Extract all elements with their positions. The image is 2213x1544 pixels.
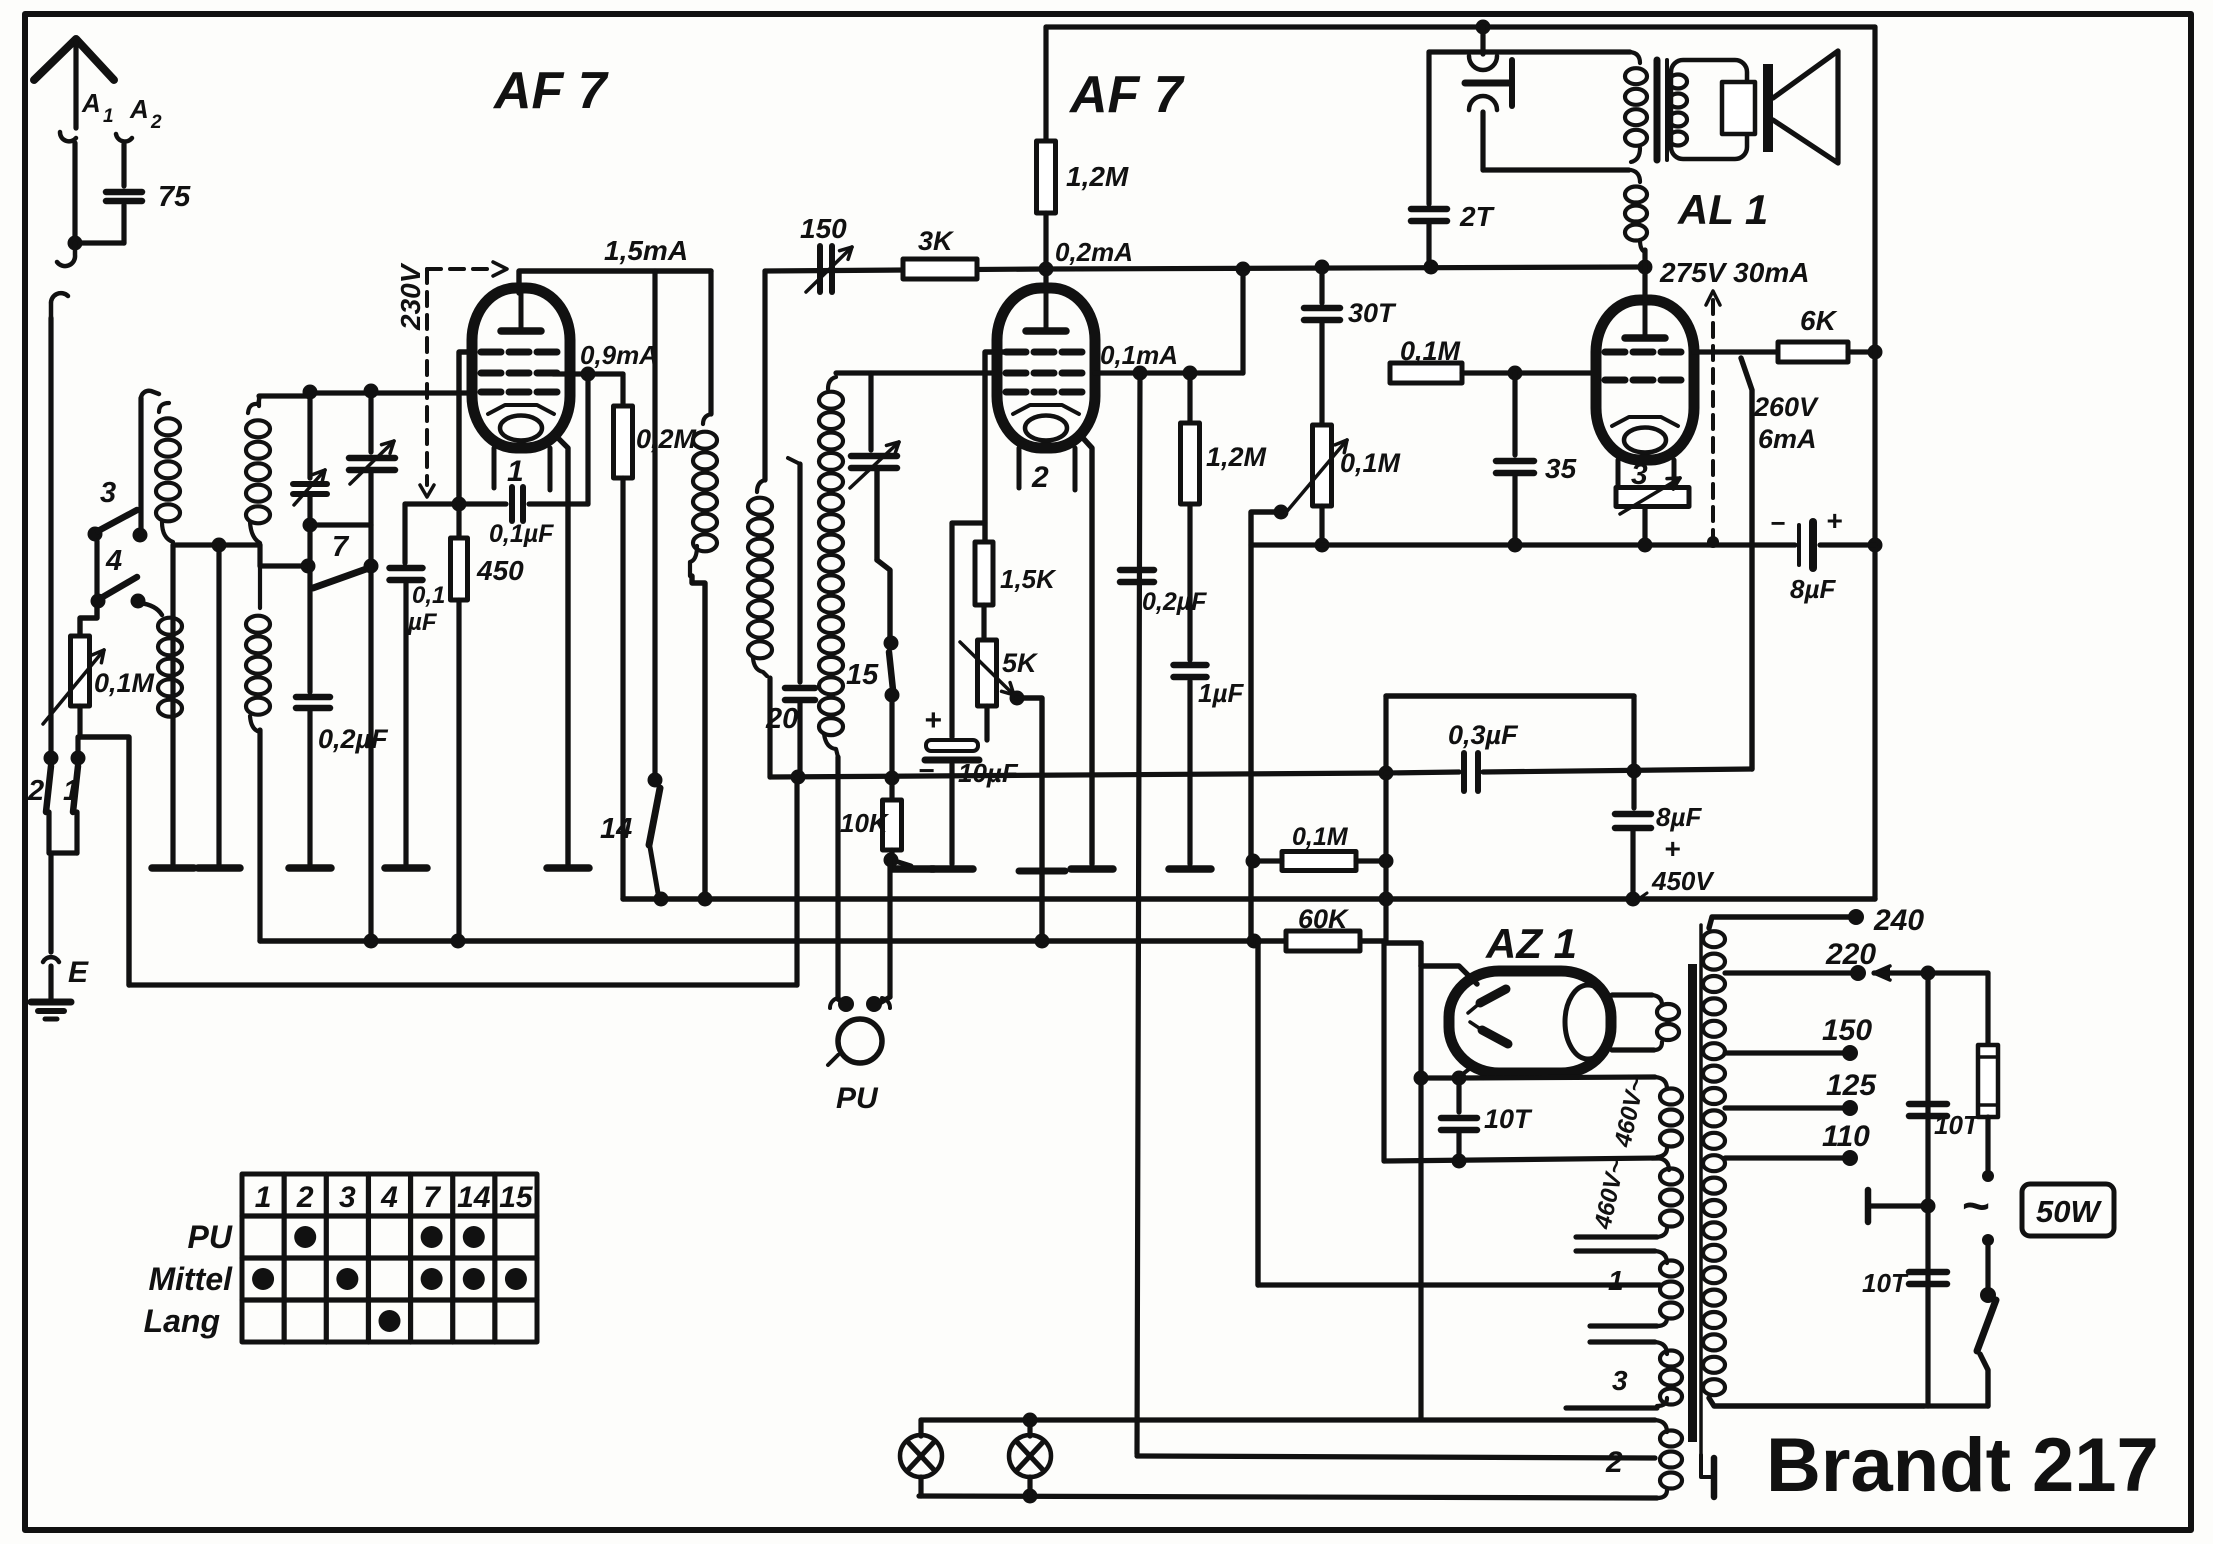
svg-text:1,5mA: 1,5mA — [604, 235, 688, 266]
wire bus2 corner down — [1381, 941, 1386, 1161]
wire plate bus y269 — [765, 269, 1046, 271]
antenna symbol — [34, 39, 114, 80]
wire ground bus1 y899 — [623, 896, 1875, 901]
wire tube2 grid1 stub — [985, 352, 1008, 542]
wire pot to switch1 — [75, 737, 80, 758]
trimmer cap C2 wire — [368, 390, 373, 452]
svg-text:5K: 5K — [1002, 648, 1039, 678]
pilot lamp 1 — [918, 1420, 923, 1436]
capacitor 10T lower — [1909, 1269, 1947, 1276]
wire primary bottom — [1709, 1398, 1924, 1406]
svg-text:+: + — [1664, 833, 1680, 864]
svg-text:125: 125 — [1826, 1069, 1877, 1102]
svg-text:2: 2 — [27, 775, 44, 807]
wire grid line y373 right — [1095, 370, 1243, 375]
svg-text:0,2M: 0,2M — [636, 424, 697, 454]
mains switch — [1982, 1234, 1994, 1246]
svg-text:75: 75 — [158, 181, 191, 213]
switch 15 bottom contact — [885, 688, 900, 703]
terminal A2 hook — [116, 134, 132, 142]
wire 1,2M to 1uF — [1187, 504, 1192, 660]
switch 4 blade — [101, 577, 137, 598]
svg-text:+: + — [924, 704, 942, 737]
svg-text:30T: 30T — [1348, 298, 1397, 328]
capacitor 30T — [1319, 267, 1324, 303]
wire frame right — [1872, 27, 1877, 899]
svg-text:450V: 450V — [1651, 866, 1715, 896]
wire coil R to PU — [835, 757, 840, 999]
tube V2 cathode — [1013, 405, 1079, 414]
ground bar x219 — [198, 864, 240, 872]
coil P IF primary — [693, 432, 717, 449]
svg-text:0,1µF: 0,1µF — [489, 520, 554, 548]
wire winding2 bottom — [919, 1496, 1657, 1498]
resistor 0,1M coupling — [1390, 363, 1462, 383]
svg-text:~: ~ — [1962, 1180, 1990, 1233]
wire L2 top to trimmers — [259, 393, 308, 398]
wire heater drop x1421 — [1418, 966, 1423, 1418]
svg-text:3: 3 — [1612, 1365, 1628, 1396]
PU jack circle — [838, 1019, 882, 1063]
tube V3 envelope — [1596, 300, 1694, 460]
wire switch3 to switch4 — [94, 541, 99, 601]
capacitor 0,1uF coupling — [509, 487, 515, 521]
wire AZ1 anode lead — [1418, 943, 1423, 966]
wire tap 150 — [1725, 1050, 1845, 1055]
tube V2 envelope — [997, 288, 1095, 448]
svg-text:PU: PU — [188, 1219, 233, 1255]
power transformer primary winding — [1703, 931, 1725, 947]
winding 2 pilot — [921, 1417, 1655, 1422]
svg-text:1,5K: 1,5K — [1000, 564, 1057, 594]
svg-text:240: 240 — [1873, 904, 1924, 937]
wire 220 branch down x1928 — [1925, 973, 1930, 1406]
svg-text:3K: 3K — [918, 226, 955, 256]
tube V2 pins — [1017, 448, 1022, 488]
wire 1,5K to 5K — [981, 605, 986, 640]
wire fuse branch — [1985, 973, 1990, 1045]
wire tap 2 — [1137, 1456, 1655, 1458]
wire pot wiper tap — [1274, 505, 1289, 520]
svg-text:3: 3 — [100, 477, 116, 509]
wire capacitor to junction — [121, 205, 126, 243]
output transformer primary coil — [1630, 52, 1640, 63]
svg-text:450: 450 — [476, 555, 524, 586]
wire plate to IF primary — [708, 271, 713, 414]
capacitor 8uF 450V — [1615, 811, 1651, 818]
switch 14 blade — [649, 788, 660, 845]
wire to ground x219 — [216, 545, 221, 864]
svg-text:0,2µF: 0,2µF — [318, 724, 389, 754]
svg-text:10T: 10T — [1934, 1110, 1981, 1140]
tube V1 top-cap anode bar — [519, 288, 524, 331]
svg-text:2: 2 — [296, 1181, 314, 1214]
svg-text:1: 1 — [507, 455, 524, 488]
svg-text:0,9mA: 0,9mA — [580, 340, 658, 370]
svg-text:1: 1 — [1608, 1265, 1624, 1296]
wire 0,2M to bus1 — [620, 478, 625, 899]
capacitor 10T AZ1 — [1456, 1078, 1461, 1112]
potentiometer 0,1M arrow — [43, 650, 104, 724]
resistor 6K — [1778, 342, 1848, 362]
potentiometer 0,1M volume — [1313, 425, 1332, 506]
switch 3 contacts — [88, 527, 103, 542]
capacitor 0,2uF — [307, 566, 312, 692]
wire grid line y373 left — [836, 370, 998, 375]
svg-text:0,1M: 0,1M — [94, 668, 155, 698]
svg-text:1µF: 1µF — [1198, 678, 1244, 708]
speaker bar — [1763, 64, 1773, 152]
svg-text:3: 3 — [339, 1181, 356, 1214]
wire 35 to bus — [1512, 475, 1517, 545]
svg-text:2: 2 — [150, 112, 162, 133]
wire pot bottom to bus — [1319, 506, 1324, 545]
svg-text:PU: PU — [836, 1082, 879, 1115]
svg-text:A: A — [81, 88, 101, 118]
svg-text:10T: 10T — [1862, 1268, 1909, 1298]
speaker driver — [1722, 82, 1755, 134]
svg-text:−: − — [1770, 508, 1785, 538]
svg-text:1: 1 — [255, 1181, 272, 1214]
antenna plug connector hooks — [57, 243, 75, 266]
svg-text:15: 15 — [499, 1181, 534, 1214]
wire 10uF branch — [952, 520, 985, 525]
svg-text:0,1mA: 0,1mA — [1100, 340, 1178, 370]
svg-text:Mittel: Mittel — [148, 1261, 233, 1297]
wire x1634 down to 8uF — [1631, 696, 1636, 808]
wire 0,1M AVC left — [1251, 858, 1282, 863]
wire L2 bottom down — [257, 545, 262, 566]
capacitor 8uF top — [1797, 525, 1801, 565]
wire 5K wiper — [1017, 698, 1042, 941]
arrow 220 — [1874, 966, 1890, 980]
switch 1 contact — [71, 751, 86, 766]
switch 14 wire — [652, 271, 657, 778]
svg-text:8µF: 8µF — [1790, 574, 1836, 604]
resistor 0,2M — [620, 374, 625, 406]
core ground hook — [1701, 1455, 1712, 1477]
capacitor 10uF electrolytic — [949, 523, 954, 737]
wire 0,3uF line — [1386, 772, 1459, 773]
wire 1,2M to tube2 top — [1043, 213, 1048, 288]
svg-text:2T: 2T — [1459, 201, 1496, 232]
svg-text:0,1: 0,1 — [412, 582, 445, 609]
wire 30T to pot — [1319, 323, 1324, 425]
table dots Mittel row — [252, 1268, 274, 1290]
capacitor 75 — [106, 189, 142, 196]
wire to earth terminal — [48, 853, 53, 952]
svg-text:0,3µF: 0,3µF — [1448, 720, 1519, 750]
svg-text:220: 220 — [1825, 938, 1876, 971]
resistor 0,1M AVC — [1282, 852, 1356, 871]
svg-text:E: E — [68, 956, 89, 989]
winding 3 heater — [1590, 1339, 1655, 1344]
table dots PU row — [294, 1226, 316, 1248]
wire inner top line — [1046, 24, 1875, 29]
switch 15 blade — [889, 652, 893, 690]
wire 60K feed down — [1384, 940, 1421, 945]
wire heater tap 1 riser — [1255, 941, 1260, 1285]
wire pot bottom — [77, 706, 82, 737]
svg-text:2: 2 — [1605, 1446, 1623, 1479]
switch 14 contact — [648, 773, 663, 788]
svg-text:1,2M: 1,2M — [1066, 161, 1129, 192]
tube V3 top-cap anode bar — [1643, 300, 1648, 338]
ground bar x1092 — [1071, 865, 1113, 873]
ground bar x310 — [289, 864, 331, 872]
wire AVC line x1137 — [1137, 373, 1140, 1454]
wire 220 to fuse circuit — [1874, 970, 1988, 975]
ground bar x952 — [931, 865, 973, 873]
output transformer secondary — [1669, 75, 1687, 89]
svg-text:10µF: 10µF — [958, 758, 1019, 788]
svg-text:2: 2 — [1031, 461, 1049, 494]
wire cathode to heater winding — [1459, 1077, 1655, 1078]
svg-text:AF 7: AF 7 — [1068, 66, 1185, 124]
svg-text:4: 4 — [105, 545, 122, 577]
wire switch to bottom — [1980, 1354, 1988, 1406]
table dots Lang row — [379, 1310, 401, 1332]
wire tap 1 — [1258, 1282, 1660, 1287]
coil L2 — [246, 420, 270, 437]
winding 460V upper — [1655, 1077, 1667, 1089]
wire 0,1M to tube3 — [1462, 370, 1597, 375]
AZ1 cathode lead — [1459, 1066, 1473, 1077]
wire 8uF to bus1 — [1630, 830, 1635, 899]
wire switch15 down — [889, 702, 894, 777]
wire 6K line — [1694, 349, 1778, 354]
wire y777 to bus3 — [794, 777, 799, 985]
potentiometer 5K arrow — [960, 642, 1014, 695]
wire cap to ground x407 — [403, 583, 408, 864]
wire screen feed — [1240, 269, 1245, 373]
potentiometer 3 bias — [1616, 488, 1689, 507]
wire cap20 down — [797, 702, 802, 777]
tube V1 pins — [492, 448, 497, 488]
wire 10K bottom — [889, 850, 894, 860]
svg-text:1: 1 — [63, 775, 79, 807]
svg-text:15: 15 — [846, 659, 879, 691]
wire x1386 vertical — [1383, 696, 1388, 941]
tube V1 grid dashes — [481, 349, 501, 356]
wire antenna chain down — [48, 318, 53, 758]
svg-text:10K: 10K — [840, 808, 890, 838]
ground bar x173 — [152, 864, 194, 872]
wire 5K bottom — [984, 706, 989, 740]
wire winding1 bottom stub — [1590, 1323, 1657, 1328]
terminal E hook — [43, 957, 59, 962]
speaker horn — [1773, 51, 1838, 163]
tube V2 top-cap anode bar — [1044, 288, 1049, 331]
resistor 450 — [456, 504, 461, 538]
potentiometer 5K — [978, 640, 997, 706]
wire tap 125 — [1725, 1105, 1845, 1110]
capacitor 0,1uF bypass — [402, 504, 407, 563]
ground bar x912 — [892, 865, 934, 873]
svg-text:0,2µF: 0,2µF — [1142, 588, 1207, 616]
wire bias line y777 — [770, 773, 1386, 777]
ground bar x1190 — [1169, 865, 1211, 873]
wire switch14 to bus1 — [650, 847, 659, 899]
wire plate bus to AL1 — [1046, 267, 1645, 269]
wire padder to switch15 — [874, 471, 879, 560]
svg-text:+: + — [1826, 505, 1842, 536]
tube V1 cathode — [488, 405, 554, 414]
wire tap 240 — [1709, 917, 1852, 928]
band switch table — [242, 1174, 537, 1342]
switch 3 blade — [98, 510, 137, 531]
wire 450 to bus2 — [456, 600, 461, 941]
svg-text:AL 1: AL 1 — [1677, 186, 1768, 233]
wire coil P bottom to bus1 — [692, 576, 705, 899]
label 50W box — [2022, 1184, 2114, 1236]
svg-text:Lang: Lang — [144, 1303, 220, 1339]
wire 2T to plate bus — [1426, 223, 1431, 267]
wire A1 down — [72, 143, 77, 243]
PU terminals — [838, 996, 854, 1012]
switch 1 blade — [73, 766, 78, 812]
winding 460V lower — [1657, 1158, 1669, 1170]
svg-text:150: 150 — [800, 213, 847, 244]
resistor 10K — [889, 778, 894, 800]
svg-text:1: 1 — [103, 106, 114, 127]
wire fuse to switch — [1985, 1117, 1990, 1172]
hook switch4 to coil L1b — [140, 603, 162, 615]
resistor 3K — [903, 259, 977, 279]
ground bar crossing x1042 — [1019, 868, 1065, 875]
wire bus2 y941 — [260, 938, 1384, 943]
wire 0,1M AVC right — [1356, 858, 1386, 863]
wire 0,3uF loop top — [1386, 693, 1634, 698]
wire 10K to ground — [892, 860, 911, 866]
capacitor 2T — [1426, 52, 1431, 204]
svg-text:4: 4 — [380, 1181, 398, 1214]
wire grid leak branch — [585, 374, 590, 504]
svg-text:8µF: 8µF — [1656, 802, 1702, 832]
trimmer cap C2 — [349, 455, 395, 462]
svg-text:0,2mA: 0,2mA — [1055, 237, 1133, 267]
coil Q IF secondary — [762, 271, 767, 480]
wire pot to bus — [80, 737, 129, 985]
svg-text:−: − — [918, 755, 934, 786]
capacitor 0,3uF — [1461, 753, 1467, 791]
chassis bar — [1865, 1190, 1872, 1222]
ground x173 — [170, 545, 175, 864]
svg-text:0,1M: 0,1M — [1400, 336, 1461, 366]
wire tap 110 — [1725, 1155, 1845, 1160]
tube V1 envelope — [472, 288, 570, 448]
wire trimmer bottoms — [310, 522, 371, 527]
tube V3 grid dashes — [1605, 349, 1625, 356]
wire anode 1,5mA — [519, 271, 711, 293]
wire output primary top — [1429, 49, 1630, 54]
wire cap to ground — [307, 711, 312, 864]
wire grid1 left stub tube1 — [459, 352, 472, 504]
wire coil Q bottom — [767, 678, 772, 777]
trimmer cap C1 — [307, 396, 312, 478]
resistor 1,2M second — [1187, 373, 1192, 423]
svg-text:0,1M: 0,1M — [1340, 448, 1401, 478]
wire y391 to tube1 grid — [308, 390, 472, 395]
svg-text:1,2M: 1,2M — [1206, 442, 1267, 472]
svg-text:A: A — [129, 94, 149, 124]
resistor 1,2M — [1037, 141, 1056, 213]
switch 7 contacts — [301, 559, 316, 574]
wire to resistor 1,2M — [1043, 27, 1048, 141]
svg-text:230V: 230V — [395, 262, 426, 331]
trimmer cap padder — [868, 373, 873, 450]
headphone jack — [1480, 27, 1485, 54]
wire to PU right — [887, 860, 892, 997]
switch 15 top contact — [884, 636, 899, 651]
wire to earth — [48, 966, 53, 1000]
tube V2 grid dashes — [1006, 349, 1026, 356]
wire switch4 to potentiometer — [80, 607, 97, 636]
speaker frame — [1671, 60, 1747, 159]
AZ1 anode plates — [1480, 989, 1506, 1003]
capacitor 0,2uF AVC — [1120, 567, 1154, 574]
wire tap 220 — [1725, 970, 1852, 975]
capacitor 1uF — [1174, 662, 1207, 669]
svg-text:20: 20 — [765, 703, 798, 735]
wire coil L1 top — [138, 398, 143, 535]
heater winding AZ1 secondary — [1612, 992, 1652, 997]
wire 10T to centre tap — [1456, 1132, 1461, 1161]
wire to switch7 left — [307, 525, 312, 566]
svg-text:6mA: 6mA — [1758, 424, 1817, 454]
ground bar x568 — [547, 864, 589, 872]
power transformer core — [1688, 964, 1697, 1442]
wire to AL1 anode — [1642, 250, 1647, 300]
wire coil bottoms y547 — [173, 542, 260, 547]
ground bar x407 — [385, 864, 427, 872]
switch 2 blade — [46, 766, 51, 812]
AZ1 envelope — [1449, 971, 1611, 1073]
svg-text:7: 7 — [332, 531, 350, 563]
potentiometer 0,1M — [71, 636, 90, 706]
coil R oscillator — [828, 377, 836, 389]
svg-text:14: 14 — [600, 813, 632, 845]
wire centre tap y1161 — [1384, 1158, 1660, 1161]
svg-text:AZ 1: AZ 1 — [1485, 920, 1577, 967]
wire L3 bottom to bus2 — [257, 730, 262, 941]
winding 1 heater — [1576, 1248, 1655, 1253]
coil L1 — [156, 418, 180, 435]
wire feedback riser — [1741, 358, 1752, 769]
wire switch7 right down — [368, 525, 373, 941]
svg-text:14: 14 — [457, 1181, 491, 1214]
wire 6K to frame — [1848, 349, 1875, 354]
pilot lamp 2 — [1027, 1420, 1032, 1436]
wire trimmer C2 bottom — [368, 473, 373, 525]
tube V3 cathode — [1612, 417, 1678, 426]
wire trimmer C1 bottom — [307, 497, 312, 525]
wire pot3 to bus — [1642, 507, 1647, 545]
wire mains bottom rail — [1924, 1403, 1988, 1408]
svg-text:Brandt 217: Brandt 217 — [1766, 1423, 2159, 1508]
svg-text:110: 110 — [1822, 1120, 1870, 1153]
svg-text:AF 7: AF 7 — [492, 62, 609, 120]
svg-text:35: 35 — [1545, 453, 1577, 484]
svg-text:0,1M: 0,1M — [1292, 823, 1349, 851]
earth ground symbol — [31, 999, 71, 1006]
svg-text:260V: 260V — [1753, 392, 1819, 422]
wire 10uF to ground — [949, 764, 954, 864]
trimmer 150 — [817, 246, 823, 292]
dashed 275V arrow — [1711, 300, 1715, 540]
wire y504 grid node — [405, 501, 506, 506]
svg-text:µF: µF — [407, 609, 438, 636]
